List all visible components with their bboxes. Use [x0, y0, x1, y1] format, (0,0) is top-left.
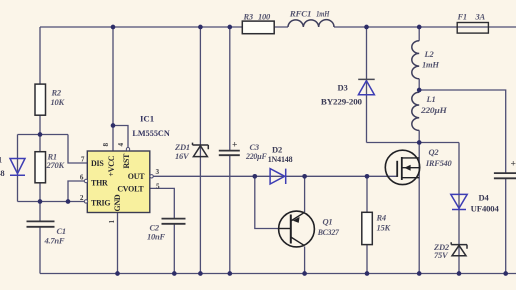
label D3 value: [321, 83, 362, 107]
inductor RFC1: [288, 20, 334, 27]
svg-text:CVOLT: CVOLT: [117, 185, 144, 194]
pin circle THR: [84, 179, 87, 182]
svg-text:4: 4: [117, 143, 125, 147]
svg-text:6: 6: [80, 174, 84, 182]
wire top VCC rail: [40, 26, 516, 28]
svg-text:220µF: 220µF: [245, 151, 267, 161]
svg-text:1: 1: [108, 220, 116, 224]
wire output tap to C4: [419, 90, 506, 274]
svg-text:F1: F1: [457, 11, 467, 21]
label C1 value: [44, 226, 66, 246]
wire D1 branch vertical: [17, 135, 19, 202]
inductor L1: [412, 92, 419, 130]
junction node dots: [38, 25, 508, 276]
wire C3 branch vertical: [229, 27, 231, 274]
IC body U1 LM555CN: [87, 151, 150, 213]
svg-text:+: +: [511, 160, 516, 170]
svg-text:L1: L1: [426, 94, 436, 104]
wire left vertical to R2: [39, 27, 41, 135]
label ZD2 value: [433, 242, 450, 260]
label L2 value: [422, 49, 439, 70]
label D2 value: [268, 145, 293, 165]
label R3 value: [243, 11, 272, 21]
svg-text:RST: RST: [122, 153, 131, 169]
label C2 value: [147, 223, 165, 242]
svg-text:Q1: Q1: [323, 217, 333, 227]
capacitor C1 plates: [27, 221, 55, 226]
svg-text:D3: D3: [338, 83, 348, 93]
pin circle TRIG: [84, 200, 87, 203]
svg-text:RFC1: RFC1: [289, 9, 311, 19]
pin circle RST: [126, 148, 129, 151]
svg-text:10K: 10K: [51, 97, 66, 107]
svg-text:OUT: OUT: [128, 172, 145, 181]
wire node A horizontal (DIS node): [18, 134, 69, 136]
fuse F1: [457, 23, 488, 34]
resistor R3: [242, 21, 274, 34]
svg-text:DIS: DIS: [91, 159, 104, 168]
label R4 value: [376, 213, 392, 233]
wire drain to D4 ZD2: [419, 143, 459, 274]
svg-text:1N4148: 1N4148: [0, 168, 5, 178]
svg-text:7: 7: [81, 156, 85, 164]
resistor R4: [362, 212, 373, 244]
svg-text:270K: 270K: [46, 160, 66, 170]
svg-text:4.7nF: 4.7nF: [44, 236, 65, 246]
label R2 value: [51, 88, 66, 107]
svg-text:Q2: Q2: [429, 147, 440, 157]
label R1 value: [46, 152, 66, 171]
wire Q1 collector vertical: [304, 247, 306, 274]
wire node B horizontal (TRIG node): [18, 201, 86, 203]
capacitor C2 plates: [162, 219, 186, 224]
zener ZD2: [451, 242, 467, 256]
svg-text:220µH: 220µH: [420, 105, 447, 115]
diode D2: [270, 169, 286, 184]
wire CVOLT to C2: [150, 188, 175, 273]
svg-text:1N4148: 1N4148: [268, 154, 293, 164]
svg-text:BY229-200: BY229-200: [321, 97, 362, 107]
wire DIS pin connection: [68, 135, 87, 164]
svg-text:3A: 3A: [475, 11, 486, 21]
wire C1 branch: [39, 202, 41, 274]
label ZD1 value: [174, 142, 190, 161]
wire Q1 emitter vertical: [304, 176, 306, 212]
capacitor C4 plates: [494, 173, 516, 178]
svg-text:R3: R3: [243, 11, 254, 21]
wire bottom ground rail: [40, 273, 516, 275]
svg-text:5: 5: [156, 183, 160, 191]
wire GND pin to ground rail: [117, 213, 119, 274]
resistor R1: [35, 152, 46, 183]
zener ZD1: [193, 143, 209, 157]
svg-text:15K: 15K: [377, 223, 392, 233]
svg-text:C1: C1: [57, 226, 66, 236]
wire THR pin connection: [68, 181, 85, 202]
svg-text:R4: R4: [376, 213, 386, 223]
svg-text:L2: L2: [424, 49, 435, 59]
svg-text:THR: THR: [91, 178, 108, 187]
pin circle OUT: [150, 175, 153, 178]
inductor L2: [412, 41, 419, 79]
label D4 value: [471, 193, 500, 214]
wire L2 L1 column: [418, 27, 420, 143]
svg-text:1mH: 1mH: [422, 60, 439, 70]
label D1 cut at edge: [0, 155, 5, 179]
svg-text:100: 100: [258, 11, 271, 21]
diode D3: [358, 79, 375, 94]
svg-text:GND: GND: [113, 194, 122, 211]
diode D4: [451, 194, 467, 209]
svg-text:3: 3: [156, 168, 160, 176]
svg-text:TRIG: TRIG: [91, 198, 110, 207]
svg-text:D4: D4: [479, 193, 490, 203]
svg-text:2: 2: [80, 194, 84, 202]
resistor R2: [35, 84, 46, 115]
label L1 value: [420, 94, 447, 115]
label Q2 value: [425, 147, 452, 168]
svg-text:1mH: 1mH: [316, 9, 330, 19]
label F1 value: [457, 11, 486, 21]
svg-text:75V: 75V: [434, 250, 449, 260]
svg-text:IC1: IC1: [140, 113, 154, 123]
capacitor C3 plates: [219, 151, 240, 156]
wire Q1 base branch: [255, 176, 279, 228]
label Q1 value: [317, 217, 340, 238]
svg-text:LM555CN: LM555CN: [132, 128, 170, 138]
wire R1 branch vertical: [39, 135, 41, 202]
label RFC1 value: [289, 9, 330, 19]
svg-text:8: 8: [102, 143, 110, 147]
svg-text:UF4004: UF4004: [471, 204, 500, 214]
wire ZD1 branch vertical: [199, 27, 201, 274]
transistor Q2 IRF540: [385, 150, 419, 184]
svg-text:BC327: BC327: [317, 227, 340, 237]
svg-text:D2: D2: [272, 145, 282, 155]
svg-text:D1: D1: [0, 155, 2, 165]
transistor Q1 BC327: [279, 211, 315, 247]
label C3 value: [245, 142, 267, 161]
svg-text:16V: 16V: [175, 151, 190, 161]
diode D1 (cut label at edge): [10, 159, 25, 176]
wire D3 branch vertical: [367, 27, 420, 143]
label IC1: [132, 113, 170, 138]
svg-text:10nF: 10nF: [147, 232, 165, 242]
svg-text:IRF540: IRF540: [425, 158, 452, 168]
wire 555 OUT to gate: [152, 175, 397, 177]
wire VCC/RST feed: [113, 27, 128, 151]
svg-text:+: +: [232, 141, 237, 151]
wire MOSFET drain-source vertical: [418, 143, 420, 274]
wire R4 branch vertical: [366, 176, 368, 273]
svg-text:+VCC: +VCC: [107, 155, 116, 176]
